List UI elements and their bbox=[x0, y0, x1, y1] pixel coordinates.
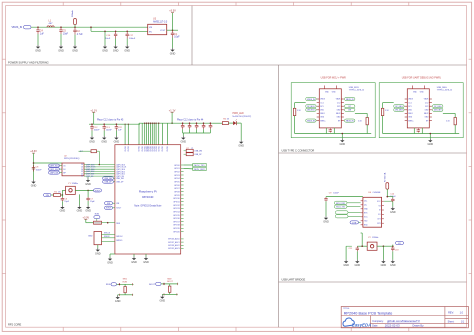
svg-text:GPIO17: GPIO17 bbox=[173, 221, 180, 223]
wire VBUS rail bbox=[31, 26, 148, 28]
ground C9 bbox=[323, 216, 329, 223]
svg-text:IOVDD: IOVDD bbox=[162, 145, 164, 151]
svg-text:CC2: CC2 bbox=[337, 102, 340, 104]
pins right adc labels bbox=[181, 238, 184, 240]
svg-text:F2 500mA: F2 500mA bbox=[383, 172, 386, 182]
svg-text:500mA: 500mA bbox=[71, 10, 74, 17]
wire boot bottom bbox=[162, 293, 177, 295]
ground chip bottom 1 bbox=[131, 257, 137, 264]
net labels right usb debug bbox=[433, 105, 443, 108]
svg-text:GPIO15: GPIO15 bbox=[173, 215, 180, 217]
svg-text:+3.3V: +3.3V bbox=[169, 10, 176, 13]
frame row ticks left/right bbox=[2, 59, 472, 273]
ground led bbox=[238, 140, 244, 147]
svg-text:USB_DM: USB_DM bbox=[104, 178, 112, 180]
resistor cc pulldown left usb debug bbox=[381, 108, 383, 115]
svg-text:UD+: UD+ bbox=[364, 201, 367, 203]
title block divider vertical rev bbox=[444, 307, 446, 328]
svg-text:github.com/DatanoiseTV: github.com/DatanoiseTV bbox=[387, 319, 420, 323]
svg-text:V3: V3 bbox=[379, 205, 381, 207]
resistor R1 bbox=[54, 194, 61, 197]
svg-text:DM_MCU: DM_MCU bbox=[307, 110, 316, 112]
svg-text:1uF: 1uF bbox=[40, 34, 45, 36]
svg-text:XOUT: XOUT bbox=[106, 208, 112, 210]
svg-text:2022-02-03: 2022-02-03 bbox=[385, 324, 400, 328]
ground cap bank bbox=[182, 133, 184, 136]
svg-text:GND: GND bbox=[238, 145, 244, 148]
green box usb debug bbox=[379, 83, 463, 138]
svg-text:+1.1V: +1.1V bbox=[169, 109, 176, 112]
node junction VBUS 2 bbox=[60, 26, 62, 28]
net labels left usb mcu bbox=[306, 97, 316, 100]
svg-text:IOVDD: IOVDD bbox=[125, 145, 127, 151]
ground crystal case bbox=[78, 194, 80, 205]
svg-text:VBUS_IN: VBUS_IN bbox=[307, 99, 315, 101]
svg-text:4.7uF: 4.7uF bbox=[77, 34, 83, 36]
svg-text:DM_DBG: DM_DBG bbox=[395, 110, 403, 112]
svg-text:USB_DM: USB_DM bbox=[116, 178, 124, 180]
svg-text:SBU2: SBU2 bbox=[336, 113, 340, 115]
ground C5 bbox=[58, 45, 64, 52]
svg-text:GPIO20: GPIO20 bbox=[173, 231, 180, 233]
svg-text:+3.3V: +3.3V bbox=[30, 150, 37, 153]
ground y2 case right bbox=[382, 246, 384, 259]
svg-text:12MHz: 12MHz bbox=[372, 237, 378, 239]
svg-text:GPIO9: GPIO9 bbox=[174, 195, 180, 197]
port XOUT to chip bbox=[105, 206, 113, 209]
svg-text:XOUT: XOUT bbox=[95, 190, 101, 192]
ic U1 RP2040 bbox=[115, 145, 181, 254]
svg-text:IOVDD: IOVDD bbox=[139, 145, 141, 151]
capacitor C2 bbox=[73, 27, 76, 34]
svg-text:GND: GND bbox=[428, 143, 434, 146]
capacitor C16 bbox=[115, 31, 117, 33]
svg-text:C21: C21 bbox=[209, 126, 212, 128]
svg-text:Sheet:: Sheet: bbox=[448, 320, 455, 323]
ground C17 bbox=[124, 45, 130, 52]
svg-text:GND: GND bbox=[340, 143, 346, 146]
svg-text:Drawn By:: Drawn By: bbox=[413, 325, 425, 328]
svg-text:GND: GND bbox=[88, 236, 93, 238]
svg-text:GND: GND bbox=[107, 261, 113, 264]
svg-text:GND: GND bbox=[181, 140, 187, 143]
svg-text:SBU2: SBU2 bbox=[424, 113, 428, 115]
capacitor C5 bbox=[59, 27, 62, 34]
svg-text:GPIO2: GPIO2 bbox=[174, 171, 180, 173]
svg-text:GPIO1: GPIO1 bbox=[174, 168, 180, 170]
svg-text:IOVDD: IOVDD bbox=[128, 145, 130, 151]
net labels right usb mcu bbox=[345, 97, 355, 100]
svg-text:BOOT: BOOT bbox=[149, 284, 156, 286]
svg-text:MCU_RX2: MCU_RX2 bbox=[194, 169, 205, 171]
svg-text:RUN: RUN bbox=[123, 281, 128, 283]
capacitor C13 bbox=[103, 123, 105, 125]
wires bottom usb debug bbox=[413, 128, 415, 134]
capacitor C7 bbox=[87, 190, 89, 197]
ground C4 bbox=[35, 45, 41, 52]
svg-text:CC1: CC1 bbox=[320, 102, 323, 104]
svg-text:CH340E: CH340E bbox=[373, 192, 381, 194]
svg-text:DP1: DP1 bbox=[320, 106, 323, 108]
ic U4 CH340E bbox=[363, 197, 382, 227]
svg-text:SHELL: SHELL bbox=[408, 120, 413, 122]
ground usb debug bbox=[429, 134, 431, 139]
port USB_DM bbox=[103, 177, 114, 180]
svg-text:GND: GND bbox=[160, 299, 166, 302]
wire y2 left bbox=[362, 245, 367, 247]
svg-text:GND: GND bbox=[58, 49, 64, 52]
ground C18 bbox=[390, 260, 396, 267]
svg-text:DP2: DP2 bbox=[425, 106, 428, 108]
svg-text:1.0: 1.0 bbox=[460, 312, 464, 315]
svg-text:15pF: 15pF bbox=[64, 201, 69, 203]
wire run top bbox=[117, 283, 134, 285]
svg-text:GND: GND bbox=[381, 264, 387, 267]
svg-text:AMS1117-3.3: AMS1117-3.3 bbox=[153, 21, 168, 24]
svg-text:MCU_TX1: MCU_TX1 bbox=[194, 165, 205, 167]
node junction VBUS 3 bbox=[74, 26, 76, 28]
svg-text:USB FOR MCU + PWR: USB FOR MCU + PWR bbox=[321, 77, 346, 80]
svg-text:100nF: 100nF bbox=[129, 38, 136, 40]
wire r2 to chip bbox=[102, 222, 115, 224]
svg-text:DP_DBG: DP_DBG bbox=[395, 106, 403, 108]
resistor cc pulldown right usb mcu bbox=[366, 118, 368, 125]
wires bottom usb mcu bbox=[325, 128, 327, 134]
svg-text:PWR_LED: PWR_LED bbox=[233, 113, 244, 115]
svg-text:RP2 CORE: RP2 CORE bbox=[8, 323, 22, 327]
connector USB_MCU bbox=[319, 89, 341, 128]
capacitor C17 bbox=[126, 31, 128, 33]
svg-text:SWCLK: SWCLK bbox=[116, 236, 123, 238]
wires top pins middle group bbox=[138, 123, 140, 145]
svg-text:USB UART BRIDGE: USB UART BRIDGE bbox=[282, 277, 306, 281]
svg-text:GND: GND bbox=[95, 252, 101, 255]
svg-text:DM2: DM2 bbox=[337, 110, 341, 112]
capacitor C11 bbox=[357, 245, 362, 247]
wire crystal out bbox=[75, 189, 93, 191]
svg-text:GND: GND bbox=[115, 300, 121, 303]
svg-text:CC1: CC1 bbox=[408, 102, 411, 104]
svg-text:DM: DM bbox=[348, 110, 351, 112]
wire cap bank bottom rail bbox=[183, 132, 211, 134]
svg-text:XIN: XIN bbox=[46, 195, 50, 197]
svg-text:GPIO14: GPIO14 bbox=[173, 211, 180, 213]
svg-text:QSPI_SS: QSPI_SS bbox=[50, 173, 59, 175]
svg-text:Raspberry Pi: Raspberry Pi bbox=[139, 190, 157, 194]
ground C11 bbox=[355, 260, 361, 267]
svg-text:GPIO29_ADC3: GPIO29_ADC3 bbox=[168, 247, 180, 250]
netlabel MCU_RX2 bbox=[193, 167, 206, 170]
svg-text:QSPI_SD1: QSPI_SD1 bbox=[49, 166, 58, 168]
ground y2 left bbox=[346, 245, 352, 247]
section line power supply bottom bbox=[6, 64, 467, 66]
svg-text:USB_DM: USB_DM bbox=[194, 151, 202, 153]
button BOOT bbox=[169, 286, 171, 292]
svg-text:GND: GND bbox=[343, 264, 349, 267]
svg-text:Place C12 close to Pin 45: Place C12 close to Pin 45 bbox=[97, 118, 124, 121]
pins right gpio stubs and labels bbox=[181, 164, 184, 166]
svg-text:GPIO13: GPIO13 bbox=[173, 208, 180, 210]
svg-text:GND: GND bbox=[323, 221, 329, 224]
svg-text:XIN: XIN bbox=[107, 203, 111, 205]
svg-text:WP: WP bbox=[63, 172, 66, 174]
svg-text:10uF: 10uF bbox=[63, 34, 69, 36]
svg-text:REV:: REV: bbox=[448, 312, 454, 315]
led D1 bbox=[233, 119, 237, 125]
wire y2 right bbox=[377, 245, 393, 247]
section line usb type c bottom bbox=[279, 152, 467, 154]
svg-text:USB TYPE C CONNECTOR: USB TYPE C CONNECTOR bbox=[282, 148, 315, 152]
ground C2 bbox=[72, 45, 78, 52]
port XIN to chip bbox=[105, 202, 113, 205]
svg-text:VBUS_IN: VBUS_IN bbox=[346, 120, 354, 122]
svg-text:CC2: CC2 bbox=[425, 102, 428, 104]
svg-text:DP_MCU: DP_MCU bbox=[307, 106, 315, 108]
wires flash to chip qspi bbox=[84, 164, 115, 166]
svg-text:C15: C15 bbox=[188, 126, 191, 128]
svg-text:TYPE-C-16 M-12: TYPE-C-16 M-12 bbox=[349, 90, 365, 92]
svg-text:GPIO7: GPIO7 bbox=[174, 188, 180, 190]
svg-text:GPIO28_ADC2: GPIO28_ADC2 bbox=[168, 244, 180, 247]
svg-text:TYPE-C-16 M-12: TYPE-C-16 M-12 bbox=[437, 90, 453, 92]
wire right cap bank rail bbox=[139, 122, 213, 124]
frame column ticks top/bottom bbox=[63, 2, 409, 331]
button RUN bbox=[124, 287, 126, 293]
svg-text:GPIO18: GPIO18 bbox=[173, 225, 180, 227]
wire boot top bbox=[161, 283, 178, 285]
svg-text:BOOT: BOOT bbox=[167, 281, 173, 283]
ground usb mcu bbox=[341, 134, 343, 139]
wire regulator EN branch bbox=[90, 27, 92, 31]
wire regulator output bbox=[167, 29, 178, 31]
svg-text:RP2040 Base PCB Template: RP2040 Base PCB Template bbox=[344, 312, 393, 316]
svg-text:MCU_RX1: MCU_RX1 bbox=[336, 203, 345, 205]
svg-text:Nc5DFY0C(2R0L2P): Nc5DFY0C(2R0L2P) bbox=[233, 116, 252, 118]
svg-text:GND: GND bbox=[390, 211, 396, 214]
resistor cc pulldown left usb mcu bbox=[293, 108, 295, 115]
svg-text:MCU_TX1: MCU_TX1 bbox=[336, 207, 345, 209]
netlabel MCU_RX1 bbox=[334, 201, 347, 204]
ground swd bbox=[97, 245, 99, 248]
svg-text:POWER SUPPLY AND FILTERING: POWER SUPPLY AND FILTERING bbox=[8, 60, 49, 64]
svg-text:EasyEDA: EasyEDA bbox=[352, 323, 372, 328]
svg-text:GPIO16: GPIO16 bbox=[173, 218, 180, 220]
svg-text:GND: GND bbox=[35, 49, 41, 52]
capacitor C12 bbox=[91, 123, 93, 125]
net labels left usb debug bbox=[394, 105, 404, 108]
ground C7 bbox=[85, 205, 91, 212]
wire r6 to led bbox=[228, 122, 233, 124]
title block outer bbox=[341, 307, 468, 328]
svg-text:D0: D0 bbox=[81, 169, 83, 171]
svg-text:USB FOR UART DEBUG (NO PWR): USB FOR UART DEBUG (NO PWR) bbox=[402, 77, 441, 80]
svg-text:TITLE:: TITLE: bbox=[343, 308, 350, 310]
svg-text:IOVDD: IOVDD bbox=[158, 145, 160, 151]
connector USB_DBG bbox=[407, 89, 429, 128]
svg-text:GPIO27_ADC1: GPIO27_ADC1 bbox=[168, 241, 180, 244]
svg-text:100nF: 100nF bbox=[106, 130, 113, 132]
svg-text:GND: GND bbox=[102, 49, 108, 52]
ground C16 bbox=[113, 45, 119, 52]
ground chip bottom left bbox=[109, 254, 111, 257]
svg-text:GND: GND bbox=[85, 210, 91, 213]
svg-text:GND: GND bbox=[390, 264, 396, 267]
svg-text:SWDIO: SWDIO bbox=[104, 236, 110, 238]
capacitor bank C14 C15 C19 C20 C21 bbox=[182, 122, 184, 124]
svg-text:15pF: 15pF bbox=[90, 201, 95, 203]
svg-text:GPIO5: GPIO5 bbox=[174, 181, 180, 183]
svg-text:GPIO8: GPIO8 bbox=[174, 191, 180, 193]
wires swd to chip bbox=[102, 233, 115, 235]
svg-text:SWCLK: SWCLK bbox=[104, 233, 111, 235]
ground C22 bbox=[114, 136, 120, 143]
wire regulator gnd branch bbox=[104, 31, 106, 45]
svg-text:GPIO10: GPIO10 bbox=[173, 198, 180, 200]
svg-text:GPIO12: GPIO12 bbox=[173, 205, 180, 207]
resistor R8 bbox=[184, 153, 187, 155]
svg-text:QSPI_SD2: QSPI_SD2 bbox=[49, 169, 58, 171]
wire chip bottom rail bbox=[133, 254, 135, 257]
port XO bbox=[396, 241, 404, 244]
capacitor C18 bbox=[391, 246, 394, 251]
section line usb column left bbox=[278, 65, 280, 327]
svg-text:C14: C14 bbox=[182, 126, 185, 128]
ground regulator input bbox=[102, 45, 108, 52]
svg-text:RUN: RUN bbox=[95, 213, 100, 215]
svg-text:100nF: 100nF bbox=[36, 169, 43, 171]
flash left ports bbox=[49, 164, 60, 167]
section line usb uart bridge bottom bbox=[279, 281, 467, 283]
port XOUT bbox=[94, 189, 102, 192]
svg-text:GND: GND bbox=[355, 264, 361, 267]
svg-text:GPIO6: GPIO6 bbox=[174, 185, 180, 187]
svg-text:DP_DBG: DP_DBG bbox=[434, 106, 442, 108]
svg-text:CK: CK bbox=[81, 167, 83, 169]
ground C12 bbox=[89, 136, 95, 143]
resistor cc pulldown right usb debug bbox=[454, 118, 456, 125]
svg-text:RUN: RUN bbox=[116, 223, 121, 225]
netlabel MCU_TX1 bbox=[334, 205, 347, 208]
svg-text:USB_DP: USB_DP bbox=[116, 181, 124, 183]
svg-text:GND: GND bbox=[143, 261, 149, 264]
svg-text:RUN: RUN bbox=[106, 284, 111, 286]
wire led feed bbox=[213, 122, 222, 124]
title block divider horizontal title bbox=[341, 315, 468, 317]
port USB_DP bbox=[103, 180, 114, 183]
svg-text:DM1: DM1 bbox=[320, 110, 324, 112]
svg-text:C20: C20 bbox=[202, 126, 205, 128]
svg-text:12MHz: 12MHz bbox=[72, 183, 79, 185]
svg-text:CS: CS bbox=[63, 165, 65, 167]
capacitor C9 bbox=[326, 196, 363, 198]
capacitor C10 bbox=[384, 200, 393, 202]
svg-text:+1.1V: +1.1V bbox=[90, 109, 97, 112]
inductor L1 bbox=[47, 26, 54, 27]
svg-text:SWDIO: SWDIO bbox=[116, 240, 123, 242]
connector J1 SWD bbox=[94, 232, 102, 245]
svg-text:VBUS_IN: VBUS_IN bbox=[346, 99, 354, 101]
svg-text:+3.3V: +3.3V bbox=[82, 216, 89, 219]
svg-text:GND: GND bbox=[60, 210, 66, 213]
svg-text:VBUS_IN: VBUS_IN bbox=[12, 26, 23, 29]
svg-text:4K7: 4K7 bbox=[80, 151, 83, 153]
ground C1 bbox=[170, 48, 176, 55]
wire run bottom bbox=[118, 294, 133, 296]
capacitor C4 bbox=[36, 27, 39, 34]
wire left cap bank rail bbox=[89, 123, 140, 125]
svg-text:100nF: 100nF bbox=[94, 130, 101, 132]
section line power supply right bbox=[191, 6, 193, 65]
svg-text:Note: GPIO15 Errata Note: Note: GPIO15 Errata Note bbox=[134, 205, 162, 208]
capacitor C1 bbox=[171, 30, 174, 37]
svg-text:GPIO3: GPIO3 bbox=[174, 175, 180, 177]
svg-text:USB_DP: USB_DP bbox=[194, 154, 202, 156]
svg-text:DP2: DP2 bbox=[337, 106, 340, 108]
capacitor C8 bbox=[32, 165, 35, 172]
ic U2 W25Q128JVSIQ bbox=[62, 163, 84, 176]
capacitor C22 bbox=[116, 123, 118, 125]
svg-text:GND: GND bbox=[85, 183, 91, 186]
svg-text:QSPI_SS: QSPI_SS bbox=[86, 176, 94, 178]
svg-text:10uF: 10uF bbox=[174, 37, 180, 39]
logo EasyEDA bbox=[343, 318, 354, 326]
svg-text:Company:: Company: bbox=[372, 320, 384, 323]
ground flash bbox=[87, 177, 89, 179]
ground C10 bbox=[390, 207, 396, 214]
svg-text:GND: GND bbox=[31, 184, 37, 187]
svg-text:SBU1: SBU1 bbox=[320, 113, 324, 115]
svg-text:GND: GND bbox=[170, 52, 176, 55]
ground C13 bbox=[101, 136, 107, 143]
svg-text:GPIO0: GPIO0 bbox=[174, 165, 180, 167]
svg-text:DP1: DP1 bbox=[408, 106, 411, 108]
resistor R2 run series bbox=[94, 221, 102, 224]
title block divider horizontal company bbox=[370, 322, 468, 324]
node junction VBUS 1 bbox=[37, 26, 39, 28]
ground chip bottom 2 bbox=[143, 257, 149, 264]
svg-text:GND: GND bbox=[131, 261, 137, 264]
svg-text:USB_DP: USB_DP bbox=[104, 182, 112, 184]
ground BOOT bbox=[161, 293, 163, 296]
capacitor C3 bbox=[61, 195, 63, 197]
svg-text:VOUT: VOUT bbox=[160, 30, 166, 32]
fuse F1 bbox=[74, 19, 77, 25]
svg-text:GND: GND bbox=[124, 49, 130, 52]
svg-text:Place C12 close to Pin 44: Place C12 close to Pin 44 bbox=[177, 118, 204, 121]
ground RUN bbox=[117, 294, 119, 297]
svg-text:GND: GND bbox=[114, 140, 120, 143]
svg-text:D3: D3 bbox=[81, 164, 83, 166]
svg-text:GND: GND bbox=[113, 49, 119, 52]
svg-text:C19: C19 bbox=[195, 126, 198, 128]
wire xin bbox=[51, 194, 54, 196]
svg-text:GND: GND bbox=[72, 49, 78, 52]
svg-text:SHELL: SHELL bbox=[320, 120, 325, 122]
svg-text:100nF: 100nF bbox=[333, 193, 339, 195]
svg-text:GND: GND bbox=[77, 210, 83, 213]
wires top pins left group bbox=[124, 124, 126, 145]
svg-text:D1: D1 bbox=[81, 173, 83, 175]
crystal Y1 bbox=[66, 186, 76, 194]
svg-text:GPIO4: GPIO4 bbox=[174, 178, 180, 180]
svg-text:GPIO11: GPIO11 bbox=[173, 201, 179, 203]
resistor R6 bbox=[222, 122, 228, 125]
svg-text:IOVDD: IOVDD bbox=[167, 145, 169, 151]
title block divider horizontal rev sheet bbox=[445, 317, 469, 319]
svg-text:Date:: Date: bbox=[372, 325, 378, 328]
svg-text:GND: GND bbox=[101, 140, 107, 143]
netlabel MCU_TX1 bbox=[193, 163, 206, 166]
